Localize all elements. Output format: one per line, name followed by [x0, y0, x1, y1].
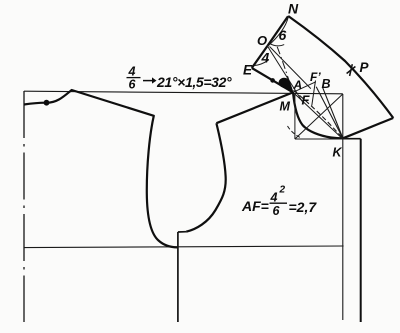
rotated piece edge R-K [343, 118, 393, 138]
svg-text:6: 6 [279, 27, 287, 43]
svg-text:6: 6 [129, 78, 137, 92]
center-back dash-dot line [23, 91, 25, 322]
svg-text:AF=: AF= [241, 198, 269, 214]
step at dart bottom [178, 231, 186, 233]
U right side [186, 123, 226, 232]
right vertical through K [342, 94, 344, 320]
arrow [143, 80, 153, 82]
measure arc 4 [254, 60, 268, 65]
thin line B to K [323, 87, 343, 138]
svg-text:2: 2 [279, 185, 286, 196]
svg-text:21°×1,5=32°: 21°×1,5=32° [156, 74, 232, 90]
shoulder segment to M [216, 92, 293, 123]
front mid vertical line [177, 232, 179, 322]
dash-dot bisector to M [277, 47, 292, 92]
svg-text:4: 4 [261, 50, 270, 66]
neck dot [44, 100, 50, 106]
top construction line [24, 91, 343, 94]
waist line [24, 246, 344, 248]
right side seam vertical [360, 139, 362, 322]
svg-text:6: 6 [273, 204, 281, 218]
thin line M to F' [293, 82, 316, 93]
square diagonal TL-BR [295, 94, 343, 139]
construction square bottom edge [295, 138, 343, 140]
svg-text:K: K [333, 146, 343, 160]
bodice outline: neck curve, shoulder, dart-spread U [24, 90, 177, 247]
small dashed arc near square corner [288, 126, 302, 138]
cross mark at P [347, 64, 356, 76]
svg-text:A: A [293, 78, 303, 92]
svg-text:4: 4 [128, 65, 136, 79]
formula 4/6 -> 21x1,5=32 [127, 65, 233, 92]
svg-text:O: O [257, 33, 267, 48]
svg-text:4: 4 [270, 191, 278, 205]
rotated piece edge E-O [252, 46, 268, 68]
thin line F' to K [316, 87, 343, 139]
svg-text:M: M [280, 100, 291, 114]
svg-text:E: E [243, 63, 253, 78]
svg-text:F’: F’ [310, 70, 321, 84]
measure arc 6 [269, 43, 284, 46]
svg-text:P: P [360, 60, 370, 75]
svg-text:=2,7: =2,7 [289, 199, 318, 215]
filled dart wedge at M [279, 78, 293, 92]
svg-text:B: B [322, 77, 331, 91]
dashed original curve M-K [294, 90, 343, 138]
thin line O to F [267, 46, 302, 102]
edge dot on E-M [270, 78, 275, 83]
construction square left edge [294, 94, 296, 139]
thin line F' to F [312, 81, 316, 106]
thin arc N to O [268, 17, 288, 46]
rotated piece top edge N-P-R [288, 16, 393, 118]
short horizontal at K [343, 138, 361, 140]
rotated piece edge O-N [267, 16, 288, 46]
formula AF = 4^2/6 = 2,7 [241, 185, 317, 219]
svg-text:N: N [288, 1, 299, 17]
thin line O to F' [270, 47, 311, 89]
thick armhole curve M-K [293, 92, 343, 138]
rotated piece edge E-M [252, 68, 293, 92]
square diagonal BL-TR [295, 94, 343, 139]
svg-text:F: F [302, 93, 311, 108]
